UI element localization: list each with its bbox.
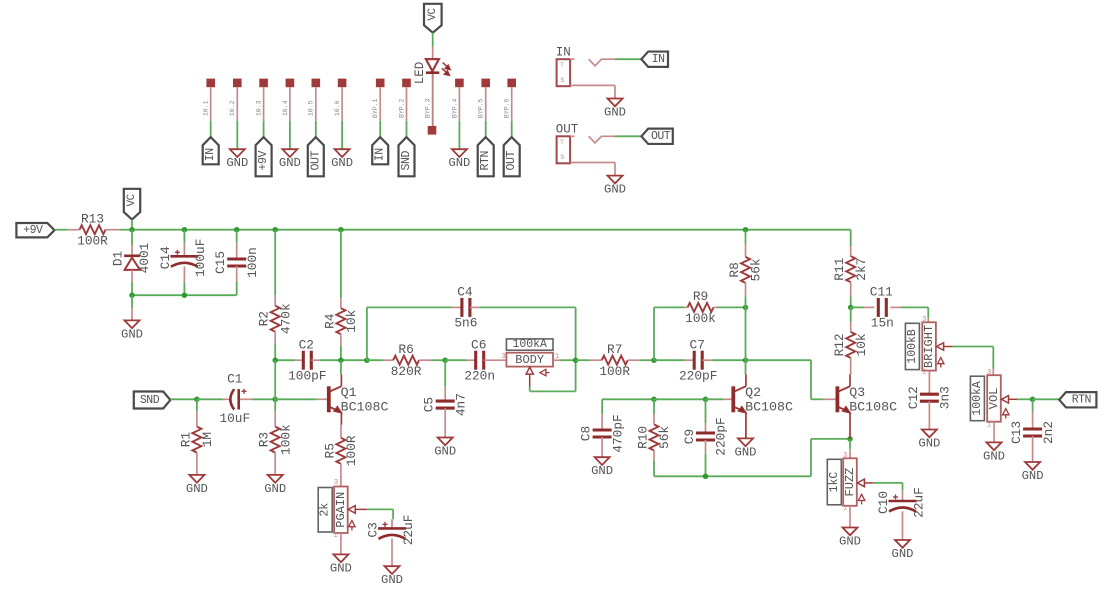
svg-text:S: S — [560, 77, 564, 84]
svg-text:T: T — [560, 62, 564, 69]
svg-text:GND: GND — [330, 561, 352, 575]
svg-text:Q1: Q1 — [341, 385, 357, 400]
svg-text:BYP.5: BYP.5 — [478, 98, 485, 118]
svg-text:10.4: 10.4 — [282, 100, 289, 116]
svg-text:100kA: 100kA — [512, 338, 547, 351]
svg-text:SND: SND — [400, 151, 413, 171]
svg-text:10k: 10k — [854, 333, 869, 356]
svg-text:BYP.1: BYP.1 — [372, 98, 379, 118]
svg-text:R2: R2 — [257, 311, 272, 326]
svg-text:C12: C12 — [906, 386, 921, 409]
svg-text:10uF: 10uF — [219, 411, 250, 426]
svg-text:100R: 100R — [344, 435, 359, 466]
svg-text:C14: C14 — [158, 246, 173, 269]
svg-text:C8: C8 — [579, 426, 594, 441]
svg-text:GND: GND — [186, 482, 208, 496]
svg-text:R12: R12 — [832, 333, 847, 356]
svg-text:R1: R1 — [178, 432, 193, 448]
svg-text:S: S — [560, 154, 564, 161]
svg-text:10.3: 10.3 — [256, 100, 263, 116]
svg-text:T: T — [560, 139, 564, 146]
svg-text:GND: GND — [226, 156, 248, 170]
svg-text:C11: C11 — [870, 285, 893, 300]
svg-text:BC108C: BC108C — [341, 400, 389, 415]
svg-text:2k7: 2k7 — [854, 258, 869, 281]
svg-text:100uF: 100uF — [193, 239, 208, 277]
svg-text:5n6: 5n6 — [454, 316, 477, 331]
svg-text:22uF: 22uF — [911, 487, 926, 518]
svg-text:IN: IN — [374, 148, 387, 161]
svg-text:2n2: 2n2 — [1041, 421, 1056, 444]
svg-text:4001: 4001 — [137, 242, 152, 273]
svg-text:OUT: OUT — [505, 151, 518, 171]
svg-text:3n3: 3n3 — [938, 386, 953, 409]
svg-text:22uF: 22uF — [401, 515, 416, 546]
svg-text:R11: R11 — [832, 257, 847, 280]
svg-text:GND: GND — [918, 437, 940, 451]
svg-text:BC108C: BC108C — [849, 400, 897, 415]
svg-text:10k: 10k — [344, 309, 359, 332]
svg-text:C15: C15 — [213, 251, 228, 274]
svg-text:3: 3 — [922, 316, 926, 324]
svg-text:GND: GND — [604, 183, 626, 197]
svg-text:220pF: 220pF — [714, 417, 729, 455]
svg-text:VC: VC — [427, 8, 439, 21]
svg-text:GND: GND — [839, 535, 861, 549]
svg-text:D1: D1 — [110, 251, 125, 267]
svg-text:100R: 100R — [599, 364, 630, 379]
svg-text:R10: R10 — [636, 426, 651, 449]
svg-text:RTN: RTN — [1072, 394, 1091, 407]
svg-text:VOL: VOL — [987, 388, 1001, 410]
svg-text:C9: C9 — [682, 429, 697, 444]
svg-text:VC: VC — [126, 193, 138, 206]
svg-text:GND: GND — [279, 156, 301, 170]
svg-text:2k: 2k — [319, 503, 332, 517]
svg-text:C7: C7 — [690, 338, 705, 353]
svg-text:OUT: OUT — [309, 151, 322, 171]
svg-text:220pF: 220pF — [679, 368, 717, 383]
svg-text:GND: GND — [591, 464, 613, 478]
svg-text:3: 3 — [334, 479, 338, 487]
svg-text:R13: R13 — [81, 211, 104, 226]
svg-text:GND: GND — [1022, 469, 1044, 483]
svg-text:C5: C5 — [422, 397, 437, 412]
svg-text:1: 1 — [333, 532, 337, 540]
svg-text:100R: 100R — [77, 233, 108, 248]
svg-text:C6: C6 — [471, 338, 486, 353]
svg-text:R9: R9 — [693, 289, 708, 304]
svg-text:OUT: OUT — [651, 130, 671, 143]
svg-text:R3: R3 — [257, 432, 272, 447]
svg-text:15n: 15n — [871, 316, 894, 331]
svg-text:3: 3 — [987, 369, 991, 377]
svg-text:1: 1 — [843, 505, 847, 513]
svg-text:Q2: Q2 — [745, 385, 761, 400]
svg-text:C1: C1 — [227, 371, 243, 386]
svg-text:10.2: 10.2 — [229, 100, 236, 116]
svg-text:C3: C3 — [366, 522, 381, 537]
svg-text:GND: GND — [604, 106, 626, 120]
svg-text:4n7: 4n7 — [453, 393, 468, 416]
svg-text:GND: GND — [434, 445, 456, 459]
svg-text:OUT: OUT — [556, 123, 579, 137]
svg-text:R4: R4 — [322, 313, 337, 329]
svg-text:PGAIN: PGAIN — [334, 492, 348, 528]
svg-text:C2: C2 — [299, 338, 314, 353]
svg-text:1: 1 — [987, 422, 991, 430]
svg-text:1: 1 — [922, 369, 926, 377]
svg-text:LED: LED — [413, 62, 427, 85]
svg-text:GND: GND — [381, 573, 403, 587]
svg-text:IN: IN — [204, 148, 217, 161]
svg-text:BYP.4: BYP.4 — [451, 98, 458, 118]
svg-text:GND: GND — [331, 156, 353, 170]
svg-text:C13: C13 — [1009, 421, 1024, 444]
svg-text:GND: GND — [264, 482, 286, 496]
svg-text:SND: SND — [140, 394, 160, 407]
svg-text:BYP.6: BYP.6 — [504, 98, 511, 118]
svg-text:R5: R5 — [322, 443, 337, 458]
svg-text:GND: GND — [983, 449, 1005, 463]
svg-text:100pF: 100pF — [288, 368, 326, 383]
svg-text:IN: IN — [556, 46, 571, 60]
svg-text:BYP.2: BYP.2 — [398, 98, 405, 118]
svg-text:GND: GND — [121, 327, 143, 341]
svg-text:BRIGHT: BRIGHT — [922, 325, 936, 368]
svg-text:470pF: 470pF — [610, 414, 625, 452]
svg-text:R7: R7 — [607, 342, 622, 357]
svg-text:GND: GND — [448, 156, 470, 170]
svg-text:470k: 470k — [278, 303, 293, 334]
svg-text:1kC: 1kC — [828, 472, 841, 493]
svg-text:56k: 56k — [657, 426, 672, 449]
svg-text:IN: IN — [652, 53, 665, 66]
svg-text:RTN: RTN — [479, 151, 492, 171]
svg-text:3: 3 — [501, 353, 505, 361]
svg-text:+9V: +9V — [257, 151, 270, 171]
svg-text:BC108C: BC108C — [745, 400, 793, 415]
svg-text:BYP.3: BYP.3 — [425, 98, 432, 118]
svg-text:R8: R8 — [727, 262, 742, 277]
svg-text:BODY: BODY — [515, 353, 544, 367]
svg-text:10.5: 10.5 — [308, 100, 315, 116]
svg-text:56k: 56k — [749, 258, 764, 281]
svg-text:100n: 100n — [245, 247, 260, 278]
svg-text:100kB: 100kB — [906, 329, 919, 364]
svg-text:10.6: 10.6 — [334, 100, 341, 116]
svg-text:100k: 100k — [685, 311, 716, 326]
svg-text:R6: R6 — [398, 342, 413, 357]
svg-text:Q3: Q3 — [849, 385, 865, 400]
svg-text:GND: GND — [892, 547, 914, 561]
svg-text:C10: C10 — [876, 491, 891, 514]
svg-text:1M: 1M — [200, 432, 215, 447]
svg-text:3: 3 — [843, 452, 847, 460]
svg-text:220n: 220n — [464, 368, 495, 383]
svg-text:820R: 820R — [391, 364, 422, 379]
svg-text:100kA: 100kA — [971, 381, 984, 416]
svg-text:GND: GND — [735, 445, 757, 459]
svg-text:+9V: +9V — [23, 224, 43, 237]
svg-text:100k: 100k — [278, 424, 293, 455]
svg-text:FUZZ: FUZZ — [843, 468, 857, 497]
svg-text:10.1: 10.1 — [203, 100, 210, 116]
svg-text:C4: C4 — [457, 285, 473, 300]
